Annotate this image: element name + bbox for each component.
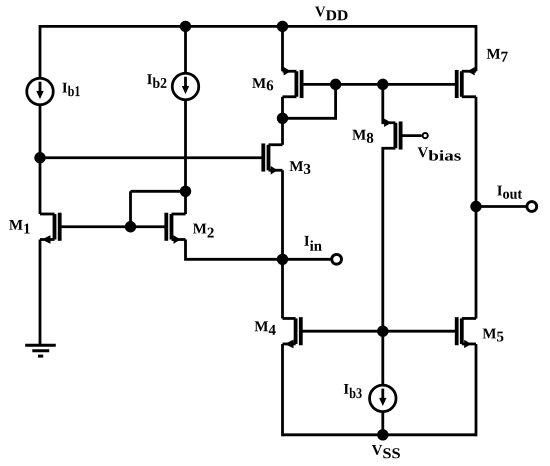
wire M3 gate (long horizontal) [40,156,262,159]
wire M2 gate-drain tie horizontal [131,190,186,193]
node dot gate bus [125,221,136,232]
wire M4-M5 gate bus [301,330,457,333]
label Ib3 [344,384,362,398]
label M5 [483,329,504,342]
transistor M1 (NMOS, mirrored) [40,213,60,244]
transistor M3 (NMOS) [263,143,282,174]
wire M6 gate lead to bus [302,83,457,86]
label Vbias [418,147,461,160]
terminal Iout open circle [527,202,537,212]
terminal Vbias open circle [423,133,428,138]
node dot Iout [470,201,481,212]
wire VDD to M7 source [475,25,478,71]
node dot left (gate of M3 tap) [34,152,45,163]
transistor M2 (NMOS) [166,213,185,244]
wire M1-M2 gate bus [60,225,167,228]
label Ib2 [147,74,166,88]
label M6 [252,78,273,90]
node dot VDD-M6 [277,21,288,32]
wire Iout stub [476,205,526,208]
node dot tie-gate bus [330,79,341,90]
wire VDD top rail [40,25,476,28]
node dot VSS [377,429,388,440]
node dot Iin [277,254,288,265]
wire Ib1 to M1 drain [39,105,42,215]
wire M6 drain-gate tie (right then up) [283,84,336,118]
wire gate node down to Ib3 [381,331,384,385]
terminal Iin open circle [332,254,342,264]
ground symbol [25,345,56,356]
label M3 [290,161,311,174]
wire M6 drain node down to M3 drain [281,118,284,144]
wire Iin node down to M4 drain [281,259,284,318]
label M2 [193,224,214,238]
wire Ib2 column upper (VDD to Ib2) [184,26,187,73]
transistor M5 (NMOS) [457,317,476,348]
wire Iin stub [283,258,331,261]
wire M4 source down to VSS [281,344,284,436]
label M8 [352,130,373,143]
node dot M8 source tap [377,79,388,90]
wire M8 gate lead to Vbias [401,134,422,137]
label M1 [9,220,30,234]
label Iout [497,186,522,199]
wire VDD to M6 source [281,26,284,71]
wire M3 source down to Iin node [281,170,284,259]
wire M6 drain down to node [281,97,284,119]
node dot M6 drain [277,113,288,124]
node dot M2 drain [180,186,191,197]
current source Ib1 [27,78,54,105]
label M4 [255,321,276,334]
label M7 [487,49,508,62]
transistor M8 (PMOS, mirrored) [384,118,401,149]
label Iin [304,236,322,251]
wire M5 source down to VSS [475,344,478,436]
wire M8 drain down to gate node of M4/M5 [383,148,396,331]
label VSS [372,445,400,458]
wire M2 source down then right to Iin node [186,240,283,260]
current source Ib2 [172,73,199,100]
node dot VDD-Ib2 [180,21,191,32]
wire M2 gate-drain tie vertical [129,191,132,226]
wire M8 source column [383,84,396,122]
transistor M4 (NMOS, mirrored) [283,317,301,348]
label Ib1 [62,83,80,97]
transistor M6 (PMOS, mirrored) [283,67,302,98]
wire M1 source to ground [39,240,42,346]
transistor M7 (PMOS) [457,67,476,98]
wire Ib2 to M2 drain [184,99,187,214]
current source Ib3 [370,385,397,412]
wire M7 drain down through Iout to M5 drain [475,97,478,319]
label VDD [315,7,348,21]
wire VSS rail [283,433,477,436]
node dot M4-M5 gate bus [377,326,388,337]
wire left column upper (VDD to Ib1) [39,25,42,79]
wire Ib3 to VSS [381,411,384,435]
